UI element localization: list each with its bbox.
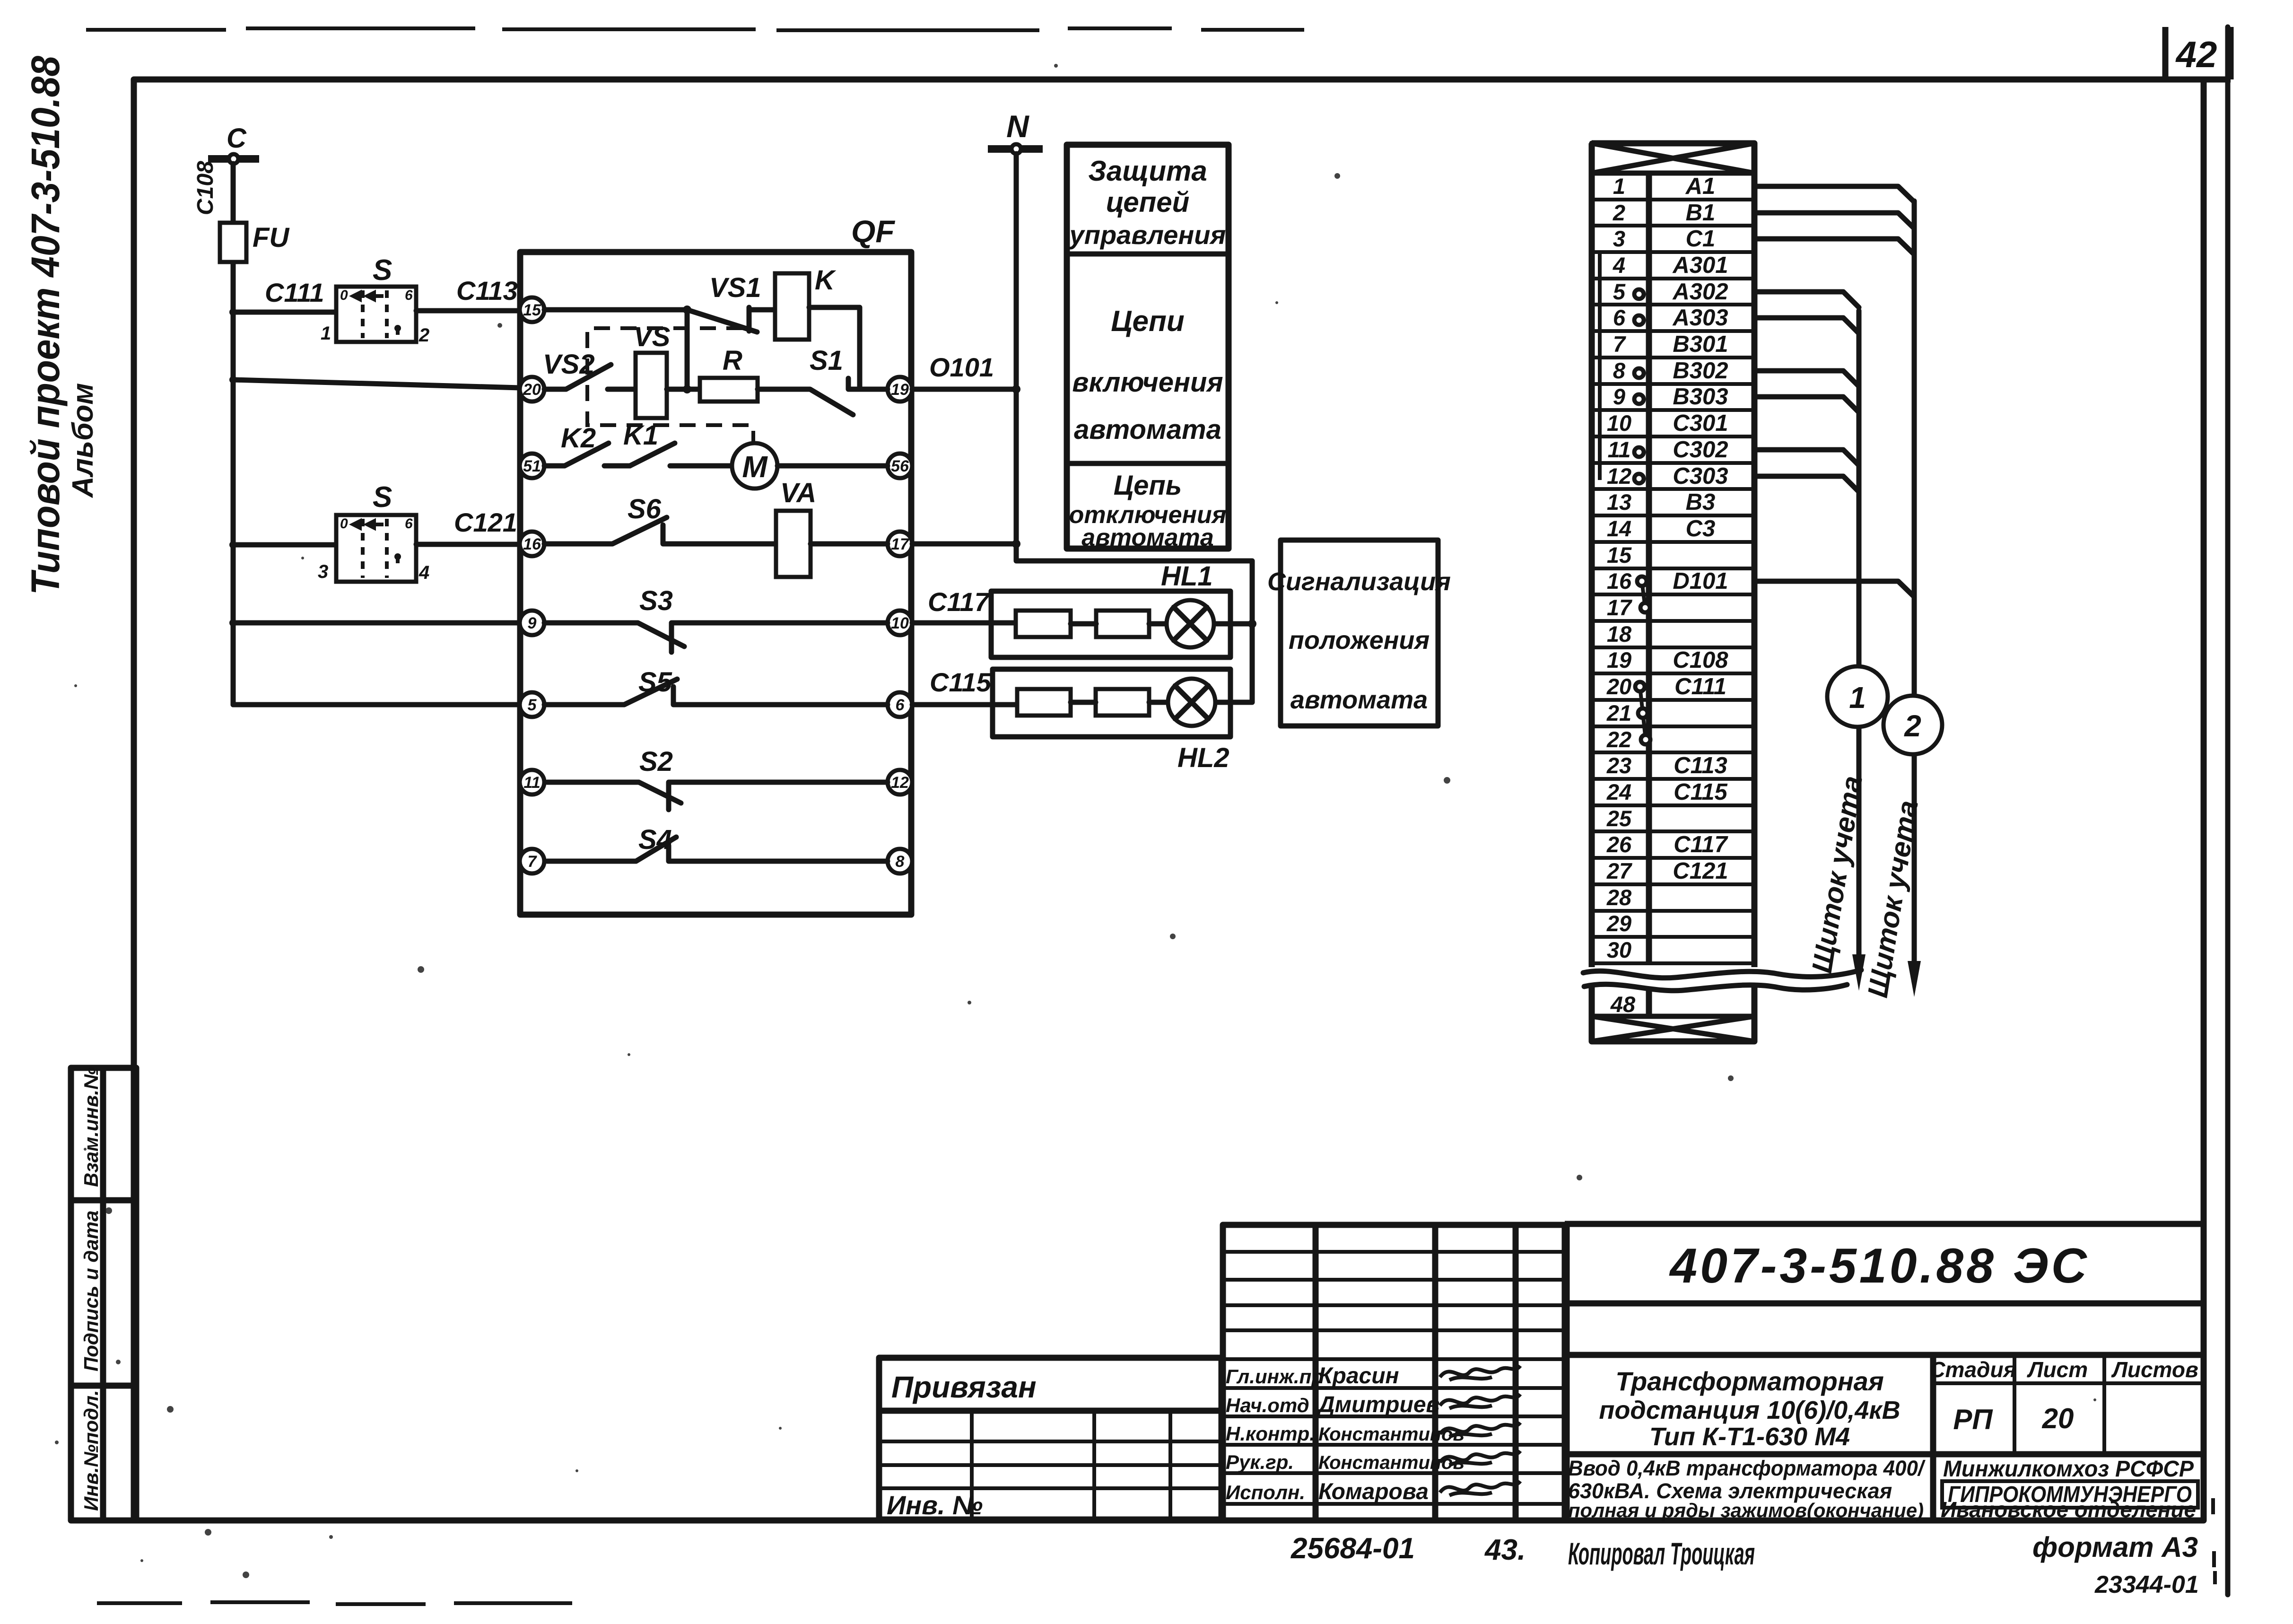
relay coil K xyxy=(775,273,809,340)
svg-text:формат А3: формат А3 xyxy=(2032,1531,2198,1563)
strip group bracket rows 4-12 xyxy=(1598,253,1602,480)
motor M xyxy=(732,443,777,489)
svg-text:M: M xyxy=(742,450,768,484)
contact VS2 xyxy=(544,365,636,389)
strip break wavy lines xyxy=(1583,970,1861,978)
svg-text:6: 6 xyxy=(405,288,413,303)
svg-text:9: 9 xyxy=(528,614,537,632)
strip bottom cross cell xyxy=(1592,1016,1754,1041)
svg-text:18: 18 xyxy=(1607,621,1632,646)
wire O101 (QF:19 to N) xyxy=(912,387,1016,392)
svg-text:6: 6 xyxy=(896,696,905,714)
svg-text:В302: В302 xyxy=(1673,358,1728,384)
svg-text:С121: С121 xyxy=(1673,858,1728,884)
page number box 42 xyxy=(2165,27,2231,79)
svg-text:S: S xyxy=(373,254,392,287)
svg-text:положения: положения xyxy=(1289,626,1430,655)
svg-text:12: 12 xyxy=(891,774,909,792)
svg-text:1: 1 xyxy=(321,323,331,344)
svg-text:20: 20 xyxy=(1606,674,1631,699)
wire C121 (bus to switch S lower) xyxy=(233,542,336,548)
svg-text:25684-01: 25684-01 xyxy=(1290,1532,1415,1565)
top paper edge dashed line xyxy=(86,28,1304,30)
contact S3 xyxy=(544,623,888,652)
svg-text:17: 17 xyxy=(1607,595,1632,620)
svg-text:19: 19 xyxy=(891,381,909,399)
svg-text:автомата: автомата xyxy=(1290,686,1428,714)
svg-text:VS1: VS1 xyxy=(709,272,761,303)
contact K1 xyxy=(630,443,732,466)
svg-text:Подпись и дата: Подпись и дата xyxy=(80,1211,102,1371)
contact S5 xyxy=(544,679,888,705)
svg-text:C108: C108 xyxy=(193,161,218,215)
svg-text:S3: S3 xyxy=(639,585,673,616)
QF terminal 7 xyxy=(520,849,544,873)
svg-text:C: C xyxy=(227,123,247,154)
svg-text:1: 1 xyxy=(1849,681,1866,715)
QF terminal 12 xyxy=(888,770,912,795)
svg-text:Минжилкомхоз РСФСР: Минжилкомхоз РСФСР xyxy=(1943,1457,2194,1482)
wire C117 (QF:10 to HL1) xyxy=(912,620,1016,626)
svg-text:15: 15 xyxy=(523,301,541,319)
QF terminal 16 xyxy=(520,532,544,556)
wire VA to terminal 17 xyxy=(811,541,888,547)
svg-text:подстанция 10(6)/0,4кВ: подстанция 10(6)/0,4кВ xyxy=(1599,1396,1900,1424)
svg-text:автомата: автомата xyxy=(1074,414,1221,445)
resistor R xyxy=(700,378,758,402)
svg-text:С113: С113 xyxy=(1674,753,1727,778)
switch S (lower) xyxy=(336,515,416,582)
svg-text:10: 10 xyxy=(1607,410,1631,436)
svg-text:В303: В303 xyxy=(1673,384,1728,410)
wire bus to QF:5 xyxy=(233,702,520,707)
QF terminal 9 xyxy=(520,611,544,635)
svg-text:28: 28 xyxy=(1606,885,1632,910)
svg-text:А302: А302 xyxy=(1672,279,1728,305)
svg-text:14: 14 xyxy=(1607,516,1631,541)
svg-text:Исполн.: Исполн. xyxy=(1226,1481,1305,1503)
wire: bus C vertical (C108) xyxy=(231,164,236,705)
wire C111 (bus to switch S) xyxy=(233,310,336,315)
title block: signatures table xyxy=(1223,1225,1567,1520)
svg-text:Трансформаторная: Трансформаторная xyxy=(1615,1366,1884,1396)
svg-text:23344-01: 23344-01 xyxy=(2094,1571,2199,1598)
svg-text:Ивановское отделение: Ивановское отделение xyxy=(1941,1497,2196,1522)
link marks on rows 5,6,8,9,11,12 xyxy=(1634,289,1644,299)
svg-text:Цепь: Цепь xyxy=(1114,470,1182,501)
svg-text:Н.контр.: Н.контр. xyxy=(1226,1423,1315,1445)
svg-text:В301: В301 xyxy=(1673,332,1728,357)
wire node A down to row 2 xyxy=(685,310,690,389)
wire QF:15 to node A (row 1) xyxy=(544,307,687,313)
bottom-left stray dashed line xyxy=(97,1602,572,1604)
svg-text:25: 25 xyxy=(1606,806,1632,831)
svg-text:C117: C117 xyxy=(928,587,991,617)
svg-text:цепей: цепей xyxy=(1106,186,1190,218)
release coil VA xyxy=(776,511,811,577)
svg-text:51: 51 xyxy=(523,457,541,475)
svg-text:включения: включения xyxy=(1072,367,1223,398)
svg-text:С303: С303 xyxy=(1673,463,1728,489)
svg-text:26: 26 xyxy=(1606,832,1632,857)
svg-text:20: 20 xyxy=(2042,1403,2074,1434)
svg-text:D101: D101 xyxy=(1673,568,1728,594)
svg-text:автомата: автомата xyxy=(1081,524,1214,551)
strip top cross cell xyxy=(1592,143,1754,173)
contact K2 xyxy=(544,443,630,466)
svg-text:1: 1 xyxy=(1613,174,1625,199)
wire VS coil to R xyxy=(667,387,700,392)
wire C113 (switch S to QF:15) xyxy=(416,308,520,314)
title block: left small table xyxy=(879,1358,1221,1520)
QF terminal 10 xyxy=(888,611,912,635)
svg-text:4: 4 xyxy=(1613,253,1625,278)
fuse FU xyxy=(220,223,246,262)
svg-text:19: 19 xyxy=(1607,647,1631,672)
svg-text:А1: А1 xyxy=(1685,174,1716,199)
svg-text:15: 15 xyxy=(1607,542,1632,568)
relay coil VS xyxy=(636,353,667,418)
annotation box: position signalling xyxy=(1267,540,1451,726)
svg-text:Нач.отд: Нач.отд xyxy=(1226,1394,1309,1416)
contact S1 xyxy=(758,378,888,415)
svg-text:S6: S6 xyxy=(628,494,662,524)
wires rows 1,2,3 and 16 to metering panel 2 xyxy=(1754,186,1914,202)
svg-text:12: 12 xyxy=(1607,463,1631,489)
svg-text:Типовой проект 407-3-510.88: Типовой проект 407-3-510.88 xyxy=(23,56,68,595)
svg-text:O101: O101 xyxy=(929,352,994,382)
svg-text:S5: S5 xyxy=(638,667,672,698)
wire C115 (QF:6 to HL2) xyxy=(912,702,1017,707)
svg-text:Инв. №: Инв. № xyxy=(887,1490,983,1520)
svg-text:С1: С1 xyxy=(1686,226,1716,252)
svg-text:Ввод 0,4кВ трансформатора 400/: Ввод 0,4кВ трансформатора 400/ xyxy=(1568,1456,1926,1480)
svg-text:2: 2 xyxy=(418,325,429,346)
svg-text:С108: С108 xyxy=(1673,647,1728,673)
svg-text:8: 8 xyxy=(896,853,905,871)
wire K coil to row 2 (down to terminal 19) xyxy=(809,307,860,389)
QF terminal 5 xyxy=(520,692,544,717)
QF terminal 15 xyxy=(520,297,544,322)
QF terminal 20 xyxy=(520,377,544,402)
svg-text:R: R xyxy=(723,345,742,376)
svg-text:48: 48 xyxy=(1610,992,1636,1017)
svg-text:8: 8 xyxy=(1613,358,1626,383)
left side stamp table xyxy=(71,1067,136,1520)
svg-text:10: 10 xyxy=(891,614,909,632)
vertical wire to metering panel 1 xyxy=(1857,311,1862,958)
svg-text:43.: 43. xyxy=(1484,1534,1526,1566)
svg-text:HL2: HL2 xyxy=(1177,742,1229,773)
svg-text:Защита: Защита xyxy=(1088,155,1207,187)
annotation box: protection / closing / opening circuits xyxy=(1067,145,1229,551)
svg-text:C111: C111 xyxy=(265,278,324,307)
wire bus to QF:9 xyxy=(233,620,520,626)
svg-text:13: 13 xyxy=(1607,489,1631,515)
jumper 20-21-22 xyxy=(1640,687,1646,740)
dashed mechanical link of VS xyxy=(587,328,753,445)
QF terminal 6 xyxy=(888,692,912,717)
vertical wire to metering panel 2 xyxy=(1912,201,1917,965)
scan specks xyxy=(497,323,502,328)
circuit breaker block QF xyxy=(520,252,911,915)
jumper 16-17 xyxy=(1642,581,1645,608)
svg-text:C121: C121 xyxy=(454,507,517,537)
svg-text:29: 29 xyxy=(1606,911,1631,936)
circle marker 1 xyxy=(1827,666,1888,727)
title block: main right table xyxy=(1565,1224,2204,1522)
svg-text:А301: А301 xyxy=(1672,253,1728,278)
svg-text:24: 24 xyxy=(1606,779,1631,804)
svg-text:K: K xyxy=(815,265,837,296)
svg-text:С3: С3 xyxy=(1686,516,1716,541)
svg-text:Красин: Красин xyxy=(1318,1363,1399,1388)
svg-text:Константинов: Константинов xyxy=(1318,1452,1465,1473)
QF terminal 51 xyxy=(520,454,544,478)
wires rows 5,6,8,9,11,12 to metering panel 1 xyxy=(1754,292,1859,307)
svg-text:N: N xyxy=(1006,109,1029,144)
svg-text:7: 7 xyxy=(1613,332,1626,357)
svg-text:5: 5 xyxy=(528,696,537,714)
contact S4 xyxy=(547,837,888,861)
node C (supply bus terminal) xyxy=(208,123,259,164)
svg-text:4: 4 xyxy=(418,562,429,583)
svg-text:Рук.гр.: Рук.гр. xyxy=(1226,1451,1294,1473)
QF terminal 56 xyxy=(888,454,912,478)
svg-text:Копировал Троицкая: Копировал Троицкая xyxy=(1568,1536,1755,1571)
arrow metering 2 xyxy=(1908,961,1921,997)
svg-text:22: 22 xyxy=(1606,727,1631,752)
svg-text:А303: А303 xyxy=(1672,305,1728,331)
outer right paper line xyxy=(2225,27,2231,1595)
svg-text:Сигнализация: Сигнализация xyxy=(1267,568,1451,596)
svg-text:С117: С117 xyxy=(1674,832,1728,857)
svg-text:Листов: Листов xyxy=(2111,1357,2198,1382)
svg-text:VS: VS xyxy=(634,322,671,352)
svg-text:В3: В3 xyxy=(1686,489,1716,515)
node A junction xyxy=(683,306,691,314)
contact S6 xyxy=(544,517,776,544)
svg-text:С301: С301 xyxy=(1673,410,1728,436)
svg-text:56: 56 xyxy=(891,457,909,475)
svg-text:3: 3 xyxy=(1613,226,1625,251)
arrow metering 1 xyxy=(1852,954,1866,991)
svg-text:30: 30 xyxy=(1607,937,1631,962)
contact VS1 xyxy=(687,307,775,332)
svg-text:16: 16 xyxy=(1607,568,1632,594)
circle marker 2 xyxy=(1883,696,1942,754)
svg-text:407-3-510.88 ЭС: 407-3-510.88 ЭС xyxy=(1669,1239,2089,1293)
svg-text:2: 2 xyxy=(1613,200,1625,225)
lamp branch HL2 xyxy=(993,669,1252,773)
QF terminal 19 xyxy=(888,377,912,402)
svg-text:Взам.инв.№: Взам.инв.№ xyxy=(80,1067,102,1187)
contact S2 xyxy=(547,782,888,810)
svg-text:S2: S2 xyxy=(639,746,673,777)
svg-text:S1: S1 xyxy=(810,345,843,376)
svg-text:Цепи: Цепи xyxy=(1111,305,1184,338)
QF terminal 11 xyxy=(520,770,544,795)
switch S (upper) xyxy=(336,287,416,342)
svg-text:Лист: Лист xyxy=(2027,1357,2088,1382)
svg-text:0: 0 xyxy=(340,516,348,532)
svg-text:0: 0 xyxy=(340,288,348,303)
svg-text:С302: С302 xyxy=(1673,437,1728,463)
svg-text:Комарова: Комарова xyxy=(1318,1479,1429,1504)
svg-text:27: 27 xyxy=(1606,858,1632,883)
svg-text:QF: QF xyxy=(851,214,895,249)
svg-text:полная и ряды зажимов(окончани: полная и ряды зажимов(окончание) xyxy=(1568,1499,1924,1521)
svg-text:Гл.инж.пр: Гл.инж.пр xyxy=(1226,1365,1324,1388)
svg-text:Привязан: Привязан xyxy=(891,1370,1037,1404)
QF terminal 8 xyxy=(888,849,912,873)
svg-text:FU: FU xyxy=(253,222,290,253)
svg-text:23: 23 xyxy=(1606,753,1631,778)
wire N vertical xyxy=(1014,154,1019,544)
svg-text:S4: S4 xyxy=(638,824,672,855)
svg-text:S: S xyxy=(373,481,392,514)
svg-text:Тип К-Т1-630 М4: Тип К-Т1-630 М4 xyxy=(1649,1423,1850,1451)
svg-text:2: 2 xyxy=(1904,709,1921,743)
svg-text:16: 16 xyxy=(523,535,541,553)
svg-text:Стадия: Стадия xyxy=(1929,1357,2016,1382)
svg-text:HL1: HL1 xyxy=(1161,561,1213,592)
QF terminal 17 xyxy=(888,532,912,556)
terminal strip XT xyxy=(1583,143,1861,1041)
svg-text:VA: VA xyxy=(780,478,816,508)
svg-text:управления: управления xyxy=(1068,220,1226,250)
wire QF:17 to N junction and to lamps xyxy=(912,544,1252,702)
svg-text:6: 6 xyxy=(1613,305,1626,330)
svg-text:В1: В1 xyxy=(1686,200,1716,226)
svg-text:3: 3 xyxy=(318,561,328,582)
svg-text:7: 7 xyxy=(528,853,538,871)
svg-text:K1: K1 xyxy=(623,420,658,451)
svg-text:C113: C113 xyxy=(456,276,518,306)
svg-text:20: 20 xyxy=(523,381,541,399)
svg-text:42: 42 xyxy=(2175,34,2217,75)
svg-text:С115: С115 xyxy=(1674,779,1727,805)
wire switch S lower to QF:16 xyxy=(416,542,520,547)
lamp branch HL1 xyxy=(991,561,1252,657)
svg-text:21: 21 xyxy=(1606,700,1631,725)
svg-text:11: 11 xyxy=(1608,437,1631,462)
svg-text:С111: С111 xyxy=(1674,674,1726,699)
svg-text:C115: C115 xyxy=(930,667,992,697)
svg-text:K2: K2 xyxy=(561,423,596,454)
node N (neutral bus) xyxy=(988,109,1043,154)
svg-text:6: 6 xyxy=(405,516,413,532)
svg-text:Альбом: Альбом xyxy=(67,383,99,498)
svg-text:Инв.№подл.: Инв.№подл. xyxy=(80,1390,102,1511)
svg-text:5: 5 xyxy=(1613,279,1626,304)
svg-text:Константинов: Константинов xyxy=(1318,1424,1465,1445)
svg-text:11: 11 xyxy=(523,774,540,792)
wire M to terminal 56 xyxy=(777,463,888,469)
svg-text:РП: РП xyxy=(1953,1404,1993,1435)
svg-text:9: 9 xyxy=(1613,384,1625,409)
svg-text:Дмитриев: Дмитриев xyxy=(1317,1392,1440,1417)
svg-text:17: 17 xyxy=(891,535,910,553)
wire bus to QF:20 xyxy=(233,380,520,388)
